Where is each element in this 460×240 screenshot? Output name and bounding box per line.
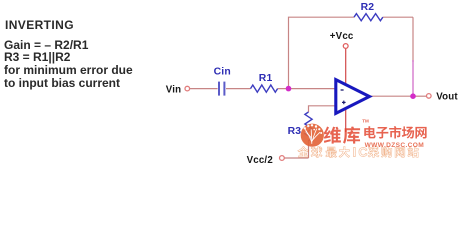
svg-text:WWW.DZSC.COM: WWW.DZSC.COM: [365, 142, 425, 149]
svg-text:C: C: [358, 145, 367, 159]
svg-text:I: I: [353, 145, 357, 159]
svg-text:TM: TM: [362, 119, 369, 124]
